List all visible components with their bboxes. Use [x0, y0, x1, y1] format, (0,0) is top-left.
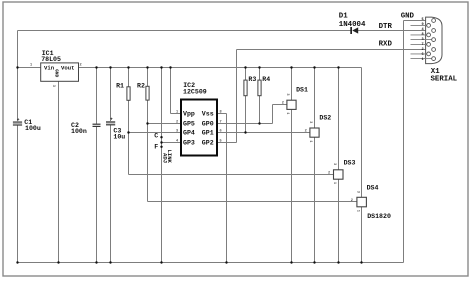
wire GP2 to RXD [217, 142, 237, 144]
ADJ LINK label [161, 150, 173, 164]
svg-text:SERIAL: SERIAL [431, 76, 458, 84]
wire to IC1 Vin [18, 67, 41, 69]
node bus C3 [109, 261, 111, 263]
svg-text:1: 1 [308, 140, 312, 142]
resistor R2 [137, 83, 149, 101]
wire RXD [237, 49, 427, 51]
svg-text:R3: R3 [248, 76, 256, 83]
svg-text:1: 1 [30, 64, 32, 68]
svg-text:100u: 100u [25, 125, 41, 132]
resistor R4 [258, 76, 270, 96]
wire GP1 [217, 132, 310, 134]
svg-text:3: 3 [332, 163, 336, 165]
node R3 GP1 [244, 131, 246, 133]
wire R2 bottom to GP5 and DS4 [147, 100, 149, 201]
node C pad [160, 136, 162, 138]
svg-text:1: 1 [422, 58, 424, 62]
capacitor C3 [106, 118, 125, 141]
wire R4 bottom [259, 96, 261, 124]
svg-text:8: 8 [422, 33, 424, 37]
svg-text:GND: GND [54, 69, 59, 77]
node bus link [160, 261, 162, 263]
wire DS4 Vdd [361, 68, 363, 198]
svg-text:1: 1 [332, 182, 336, 184]
svg-text:D1: D1 [339, 12, 348, 20]
wire DS4 gnd [361, 207, 363, 263]
svg-text:1: 1 [176, 110, 178, 114]
node Vin/C1 [16, 66, 18, 68]
node bus Vss [225, 261, 227, 263]
svg-text:3: 3 [308, 121, 312, 123]
IC1 78L05 regulator [30, 50, 82, 87]
node bus C1 [16, 261, 18, 263]
wire DS1 gnd [291, 109, 293, 262]
svg-text:3: 3 [285, 93, 289, 95]
node rail C3 [109, 66, 111, 68]
node bus IC1 gnd [57, 261, 59, 263]
wire R1 bottom to GP4 and DS3 [128, 100, 130, 174]
node bus DS2 [313, 261, 315, 263]
svg-text:7: 7 [422, 43, 424, 47]
svg-text:2: 2 [422, 48, 424, 52]
node bus DS1 [290, 261, 292, 263]
sensor DS1 [282, 86, 308, 114]
svg-text:LINK: LINK [166, 150, 173, 164]
svg-text:Vss: Vss [202, 111, 214, 118]
resistor R1 [116, 83, 130, 101]
svg-text:GP4: GP4 [183, 130, 195, 137]
node rail DS3 [337, 66, 339, 68]
wire C1 branch [17, 68, 19, 122]
node R4 GP0 [258, 122, 260, 124]
svg-text:2: 2 [305, 129, 307, 133]
svg-text:5: 5 [220, 139, 222, 143]
wire DS3 Vdd [338, 68, 340, 170]
wire diode to DTR pin [358, 30, 432, 32]
node rail R2 [146, 66, 148, 68]
svg-text:3: 3 [51, 85, 55, 87]
node rail Vpp [169, 66, 171, 68]
wire GP5 [148, 123, 182, 125]
svg-text:R2: R2 [137, 83, 145, 90]
wire DS4 data [148, 201, 357, 203]
node rail link [160, 66, 162, 68]
wire IC1 GND pin down [58, 81, 60, 262]
svg-text:DS3: DS3 [344, 159, 356, 166]
svg-text:GP2: GP2 [202, 140, 214, 147]
node rail R1 [127, 66, 129, 68]
svg-text:9: 9 [422, 23, 424, 27]
node rail C2 [95, 66, 97, 68]
wire C-F link vertical [161, 68, 163, 263]
svg-text:GP1: GP1 [202, 130, 214, 137]
svg-text:3: 3 [355, 191, 359, 193]
svg-text:10u: 10u [113, 134, 125, 141]
wire input corner down [17, 31, 19, 68]
wire C3 branch [110, 68, 112, 122]
capacitor C1 [13, 118, 41, 132]
svg-text:GP0: GP0 [202, 121, 214, 128]
svg-text:GND: GND [401, 13, 415, 21]
sensor DS3 [328, 159, 356, 184]
wire Vpp branch [170, 68, 172, 114]
svg-text:GP5: GP5 [183, 121, 195, 128]
svg-text:100n: 100n [71, 128, 87, 135]
svg-text:+: + [17, 118, 20, 123]
svg-text:DS2: DS2 [319, 115, 331, 122]
wire DS1 Vdd [291, 68, 293, 101]
wire R4 top [259, 68, 261, 81]
wire DS3 data [129, 174, 334, 176]
svg-text:2: 2 [80, 64, 82, 68]
svg-text:7: 7 [220, 120, 222, 124]
wire ground bus [18, 262, 404, 264]
wire GND up to serial [403, 21, 405, 263]
connector X1 serial DB9 [379, 13, 458, 84]
node rail R4 [258, 66, 260, 68]
svg-text:DS1: DS1 [296, 86, 308, 93]
diode D1 [339, 12, 366, 34]
wire Vss down [217, 113, 227, 115]
node rail DS1 [290, 66, 292, 68]
wire DS2 Vdd [314, 68, 316, 129]
svg-text:DTR: DTR [379, 23, 393, 31]
capacitor C2 [71, 122, 101, 135]
wire GP0 [217, 123, 273, 125]
svg-text:R4: R4 [262, 76, 270, 83]
resistor R3 [244, 76, 256, 96]
svg-text:2: 2 [176, 120, 178, 124]
svg-text:1: 1 [285, 112, 289, 114]
wire C2 branch [96, 68, 98, 124]
wire R1 top [128, 68, 130, 87]
svg-text:GP3: GP3 [183, 140, 195, 147]
svg-text:Vout: Vout [61, 65, 74, 72]
svg-text:2: 2 [351, 199, 353, 203]
svg-text:2: 2 [328, 171, 330, 175]
wire +5V rail [79, 67, 362, 69]
svg-text:Vpp: Vpp [183, 111, 195, 118]
wire R3 bottom [245, 96, 247, 133]
svg-text:Vin: Vin [44, 65, 55, 72]
svg-text:2: 2 [282, 101, 284, 105]
svg-text:+: + [110, 118, 113, 123]
wire DS3 gnd [338, 179, 340, 262]
svg-text:1: 1 [355, 210, 359, 212]
sensor DS4 [351, 185, 391, 220]
svg-text:78L05: 78L05 [41, 56, 61, 63]
svg-text:12C509: 12C509 [183, 88, 207, 95]
wire DS2 gnd [314, 137, 316, 262]
node bus DS3 [337, 261, 339, 263]
node bus C2 [95, 261, 97, 263]
node rail R3 [244, 66, 246, 68]
wire GP3 [162, 142, 182, 144]
svg-text:3: 3 [176, 129, 178, 133]
svg-text:3: 3 [422, 38, 424, 42]
svg-text:DS4: DS4 [367, 185, 379, 192]
svg-text:5: 5 [422, 18, 424, 22]
svg-text:1N4004: 1N4004 [339, 21, 366, 29]
wire GP4 [129, 132, 182, 134]
node R2 GP5 [146, 122, 148, 124]
svg-text:C: C [154, 133, 158, 140]
node F pad [160, 146, 162, 148]
svg-text:6: 6 [422, 53, 424, 57]
node R1 GP4 [127, 131, 129, 133]
svg-text:R1: R1 [116, 83, 124, 90]
svg-text:8: 8 [220, 110, 222, 114]
svg-text:F: F [154, 143, 158, 150]
svg-text:6: 6 [220, 129, 222, 133]
node GP3 link junction [160, 141, 162, 143]
wire R2 top [147, 68, 149, 87]
wire DTR input top [18, 30, 351, 32]
node bus DS4 [360, 261, 362, 263]
sensor DS2 [305, 115, 332, 143]
node rail DS2 [313, 66, 315, 68]
IC2 12C509 [176, 82, 222, 156]
svg-text:RXD: RXD [379, 41, 393, 49]
svg-text:DS1820: DS1820 [367, 213, 391, 220]
wire R3 top [245, 68, 247, 81]
